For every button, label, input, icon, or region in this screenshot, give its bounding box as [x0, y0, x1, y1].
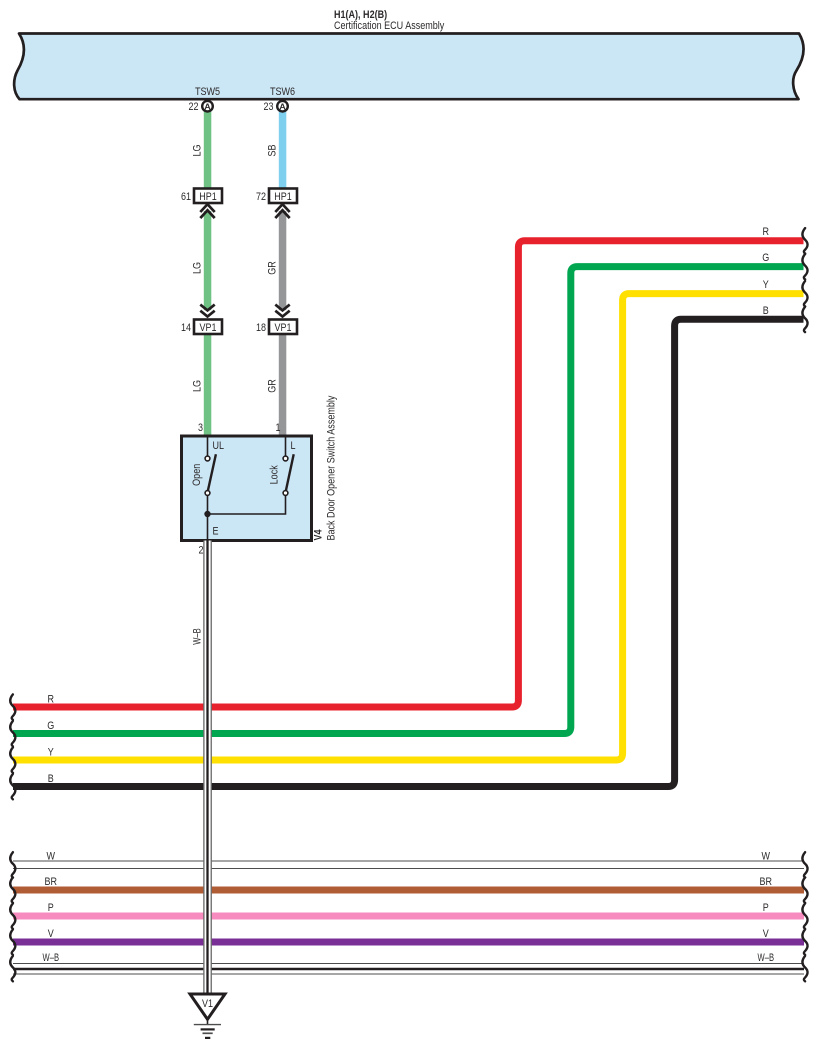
ground bar 4: [205, 1037, 210, 1039]
svg-text:W: W: [47, 851, 56, 863]
svg-text:TSW6: TSW6: [270, 86, 295, 98]
svg-text:V: V: [48, 928, 55, 940]
svg-text:B: B: [763, 305, 769, 317]
svg-text:GR: GR: [267, 379, 279, 393]
break squiggle P right: [802, 903, 807, 928]
label SB: [267, 145, 279, 157]
switch V4 box (Back Door Opener Switch Assembly): [182, 436, 312, 541]
svg-text:G: G: [762, 252, 769, 264]
label Back Door Opener Switch Assembly (rotated): [326, 395, 338, 540]
svg-text:LG: LG: [192, 145, 204, 157]
wire GR (VP1 to switch): [279, 334, 287, 436]
svg-text:22: 22: [189, 101, 199, 113]
switch Lock: lower contact: [283, 491, 288, 496]
pin 23 TSW6 connector A: [264, 101, 288, 113]
wire W-B (white-black): [13, 963, 804, 974]
break squiggle G left: [10, 721, 15, 746]
break squiggle W left: [10, 852, 15, 877]
svg-text:2: 2: [199, 545, 204, 557]
svg-text:61: 61: [181, 191, 191, 203]
svg-text:R: R: [763, 226, 770, 238]
break squiggle R left: [10, 694, 15, 719]
svg-text:B: B: [48, 773, 54, 785]
svg-text:Open: Open: [191, 464, 203, 486]
wire W (white): [13, 861, 804, 869]
label LG (lower): [192, 380, 204, 392]
svg-text:HP1: HP1: [274, 191, 292, 203]
wire LG (HP1 to VP1): [204, 211, 212, 310]
svg-text:VP1: VP1: [200, 322, 217, 334]
connector HP1 pin 61: [181, 189, 222, 204]
switch Open: blade: [208, 454, 216, 490]
svg-text:G: G: [47, 720, 54, 732]
shield chevrons below HP1 (right): [275, 204, 289, 218]
wire V (violet): [13, 939, 804, 946]
svg-text:V1: V1: [202, 998, 213, 1010]
label W-B vertical (rotated): [192, 628, 204, 645]
break squiggle Y left: [10, 747, 15, 772]
label GR (lower): [267, 379, 279, 393]
svg-text:3: 3: [198, 422, 203, 434]
svg-text:BR: BR: [45, 876, 58, 888]
connector VP1 pin 14: [181, 320, 222, 335]
svg-text:W–B: W–B: [43, 952, 60, 964]
svg-text:GR: GR: [267, 261, 279, 275]
svg-text:A: A: [279, 101, 286, 111]
svg-text:Y: Y: [763, 279, 770, 291]
svg-text:1: 1: [276, 422, 281, 434]
break squiggle W-B left: [10, 956, 15, 981]
junction node E: [204, 511, 210, 517]
connector VP1 pin 18: [256, 320, 297, 335]
wire GR (HP1 to VP1): [279, 211, 287, 310]
svg-text:23: 23: [264, 101, 274, 113]
switch Open: lower contact: [205, 491, 210, 496]
break squiggle R right: [802, 228, 807, 253]
svg-text:Back Door Opener Switch Assemb: Back Door Opener Switch Assembly: [326, 395, 338, 540]
svg-text:A: A: [204, 101, 211, 111]
svg-text:W: W: [762, 851, 771, 863]
break squiggle V right: [802, 929, 807, 954]
wire W-B vertical (switch pin 2 to ground V1): [203, 541, 212, 995]
ground V1 triangle: [190, 994, 225, 1019]
ground bar 3: [203, 1032, 213, 1034]
break squiggle B left: [10, 774, 15, 799]
shield chevrons below HP1 (left): [200, 204, 214, 218]
break squiggle V left: [10, 929, 15, 954]
wire R (red): [13, 241, 804, 707]
shield chevrons above VP1 (left): [200, 305, 214, 317]
svg-text:P: P: [48, 902, 54, 914]
wire BR (brown): [13, 887, 804, 894]
svg-text:18: 18: [256, 322, 266, 334]
switch Lock: upper contact: [283, 456, 288, 461]
break squiggle W right: [802, 852, 807, 877]
wire E bus inside switch: [208, 495, 286, 541]
ground bar 2: [201, 1028, 215, 1030]
ECU assembly band (Certification ECU Assembly): [14, 34, 804, 100]
svg-text:VP1: VP1: [275, 322, 292, 334]
break squiggle G right: [802, 254, 807, 279]
svg-text:W–B: W–B: [192, 628, 204, 645]
label Lock (rotated): [269, 465, 281, 484]
shield chevrons above VP1 (right): [275, 305, 289, 317]
svg-text:TSW5: TSW5: [195, 86, 220, 98]
ground stem: [207, 1019, 209, 1024]
break squiggle W-B right: [802, 956, 807, 981]
label GR (middle): [267, 261, 279, 275]
wire P (pink): [13, 913, 804, 920]
break squiggle BR left: [10, 877, 15, 902]
break squiggle B right: [802, 307, 807, 332]
wire G (green): [13, 267, 804, 734]
svg-text:14: 14: [181, 322, 191, 334]
wire LG (pin 22 to HP1): [204, 110, 212, 189]
svg-text:Lock: Lock: [269, 465, 281, 484]
connector HP1 pin 72: [256, 189, 297, 204]
label Open (rotated): [191, 464, 203, 486]
svg-text:Y: Y: [48, 747, 55, 759]
ground bar 1: [194, 1024, 221, 1026]
wire B (black): [13, 319, 804, 786]
label LG: [192, 145, 204, 157]
svg-text:P: P: [763, 902, 769, 914]
svg-text:HP1: HP1: [199, 191, 217, 203]
svg-text:L: L: [291, 440, 296, 452]
wire Y (yellow): [13, 294, 804, 760]
pin 22 TSW5 connector A: [189, 101, 213, 113]
svg-text:SB: SB: [267, 145, 279, 157]
label V4 (rotated): [313, 529, 325, 541]
label LG (middle): [192, 262, 204, 274]
svg-text:Certification ECU Assembly: Certification ECU Assembly: [334, 20, 445, 32]
break squiggle BR right: [802, 877, 807, 902]
switch Open: pin line: [207, 438, 209, 457]
break squiggle P left: [10, 903, 15, 928]
switch Lock: blade: [286, 454, 294, 490]
wire LG (VP1 to switch): [204, 334, 212, 436]
break squiggle Y right: [802, 281, 807, 306]
svg-text:E: E: [213, 526, 219, 538]
svg-text:V4: V4: [313, 529, 325, 541]
svg-text:V: V: [763, 928, 770, 940]
svg-text:UL: UL: [213, 440, 225, 452]
switch Open: upper contact: [205, 456, 210, 461]
switch Lock: pin line: [285, 438, 287, 457]
svg-text:LG: LG: [192, 262, 204, 274]
svg-text:W–B: W–B: [758, 952, 775, 964]
svg-text:LG: LG: [192, 380, 204, 392]
svg-text:R: R: [48, 694, 55, 706]
svg-text:BR: BR: [760, 876, 773, 888]
wire SB (pin 23 to HP1): [279, 110, 287, 189]
svg-text:72: 72: [256, 191, 266, 203]
